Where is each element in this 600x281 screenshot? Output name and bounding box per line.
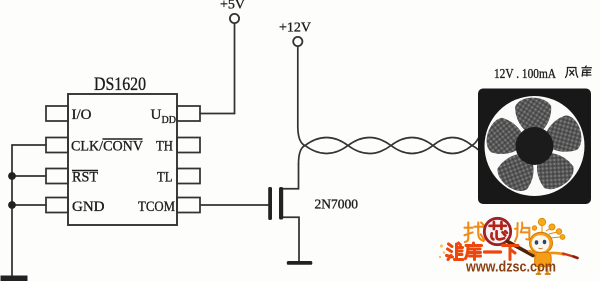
svg-text:2N7000: 2N7000 xyxy=(315,197,359,212)
wire CLK/CONV to left bus xyxy=(12,144,46,146)
svg-text:+5V: +5V xyxy=(220,0,245,13)
wire UDD to +5V xyxy=(200,113,235,115)
pin CLK/CONV (pin 2) xyxy=(46,138,68,153)
pin TL (pin 6) xyxy=(177,169,200,184)
svg-text:DS1620: DS1620 xyxy=(94,75,146,95)
mascot eyes and mouth xyxy=(535,240,539,244)
wire source down xyxy=(281,217,299,261)
label CJK fengshan (fan) xyxy=(566,66,592,78)
svg-text:TL: TL xyxy=(157,170,173,186)
mascot pen (red tip) xyxy=(563,254,575,258)
mascot crown balls xyxy=(532,218,565,239)
mascot head (hood + face) xyxy=(530,232,553,254)
svg-text:CLK/CONV: CLK/CONV xyxy=(71,139,143,155)
watermark char xin (core) red in magnifier xyxy=(490,222,507,239)
svg-text:+12V: +12V xyxy=(279,21,311,36)
junction dot at GND xyxy=(8,201,16,209)
pin GND (pin 4) xyxy=(46,198,68,213)
svg-text:I/O: I/O xyxy=(72,107,92,123)
svg-text:GND: GND xyxy=(72,199,105,215)
char ku xyxy=(466,243,482,260)
IC U1 DS1620 body xyxy=(68,94,177,225)
pin RST (pin 3) xyxy=(46,169,68,184)
overline on RST xyxy=(72,170,98,172)
transistor Q1 2N7000 channel bar xyxy=(279,187,283,220)
mascot right arm xyxy=(550,253,564,255)
char wei xyxy=(447,243,464,260)
wire left bus vertical xyxy=(11,145,13,277)
fan assembly xyxy=(478,89,591,205)
fan hub xyxy=(516,127,554,165)
mascot left arm holding handle xyxy=(530,251,537,254)
terminal circle +5V xyxy=(230,14,239,23)
watermark logo xyxy=(439,218,578,275)
terminal circle +12V xyxy=(293,37,302,46)
svg-text:DD: DD xyxy=(162,115,176,126)
svg-text:U: U xyxy=(151,107,162,123)
svg-text:RST: RST xyxy=(72,170,98,186)
char yi xyxy=(485,250,501,253)
svg-text:TCOM: TCOM xyxy=(138,199,175,215)
char xia xyxy=(503,246,519,260)
wire TCOM to gate xyxy=(201,204,269,206)
mascot body xyxy=(535,253,552,267)
wire GND to left bus xyxy=(12,204,46,206)
ground (source of Q1) xyxy=(287,261,313,265)
magnifier handle xyxy=(508,242,534,256)
magnifier ring xyxy=(484,218,510,244)
junction dot at RST xyxy=(8,172,16,180)
pin TH (pin 7) xyxy=(177,138,200,153)
mascot legs xyxy=(539,267,548,274)
overline on CONV xyxy=(103,138,143,140)
svg-text:www.dzsc.com: www.dzsc.com xyxy=(465,260,556,276)
fan opening xyxy=(485,96,585,196)
wire RST to left bus xyxy=(12,175,46,177)
svg-text:12V . 100mA: 12V . 100mA xyxy=(494,66,556,81)
ground (left bus) xyxy=(1,276,28,281)
pin UDD (pin 8) xyxy=(177,106,200,121)
watermark char zhao (find) outlined xyxy=(464,222,529,241)
pin TCOM (pin 5) xyxy=(177,198,200,213)
wire twisted pair conductor A (from +12V) xyxy=(298,46,479,153)
wire +5V vertical drop xyxy=(234,23,236,113)
wire drain up xyxy=(281,164,299,189)
pin I/O (pin 1) xyxy=(46,106,68,121)
wire twisted pair conductor B (from drain) xyxy=(299,138,479,165)
watermark text weiku-yixia (red) xyxy=(447,243,519,260)
svg-text:TH: TH xyxy=(156,139,173,155)
sparkle dots xyxy=(440,244,443,247)
fan frame xyxy=(478,89,591,205)
watermark char pian (piece) outlined xyxy=(515,223,529,242)
transistor Q1 2N7000 gate bar xyxy=(268,187,272,220)
